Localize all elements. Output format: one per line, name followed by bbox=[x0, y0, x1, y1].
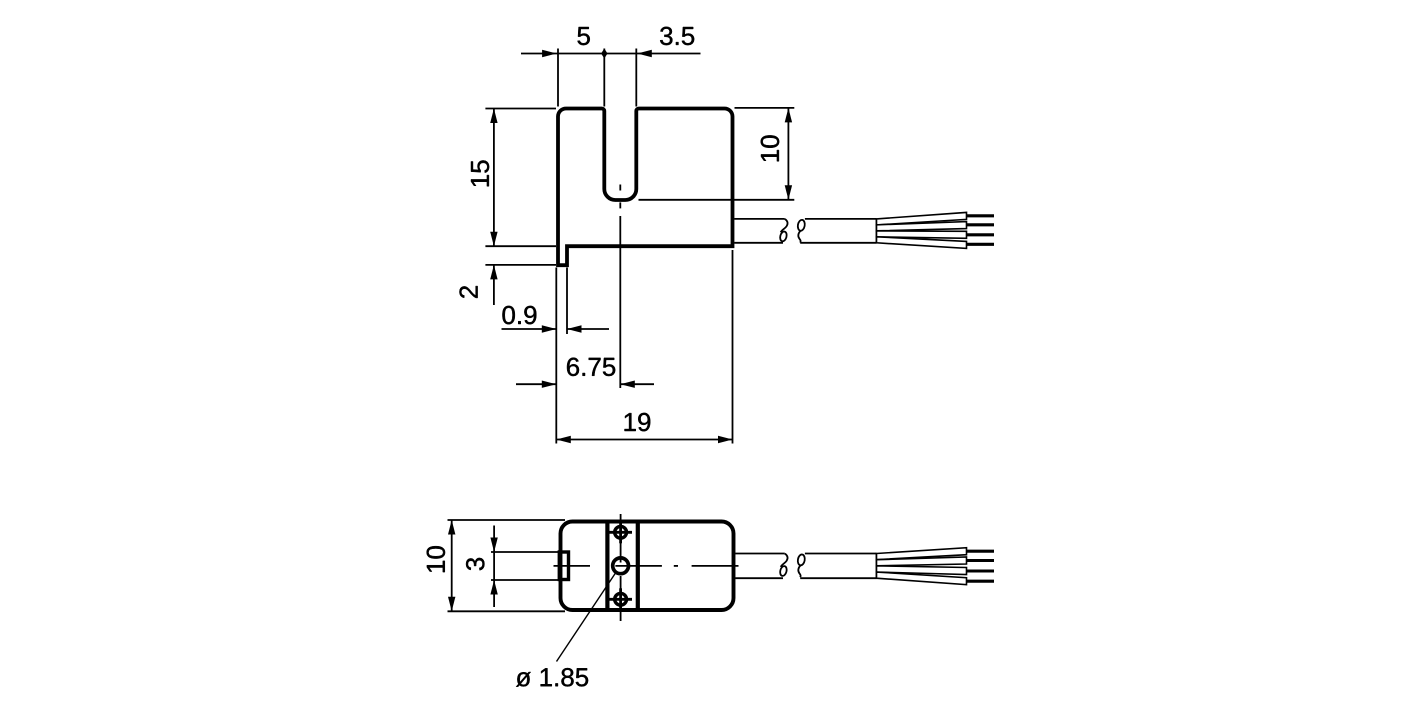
arrow right at body left edge bbox=[542, 50, 557, 57]
diamond marker at slot left wall bbox=[601, 49, 607, 59]
label 5 bbox=[578, 27, 590, 45]
extension line slot left wall (top) bbox=[603, 49, 605, 107]
fan-out wire 3 bbox=[877, 231, 967, 238]
cable break squiggle left bbox=[781, 219, 788, 232]
inner vertical line right bbox=[636, 523, 640, 608]
fan-out wire 1 (bottom view) bbox=[877, 548, 967, 560]
top small hole with cross bbox=[615, 526, 627, 538]
label 10 (rotated) bbox=[761, 135, 779, 161]
bare wire tip 4 bbox=[967, 243, 995, 246]
dimension 10 (bottom view height) bbox=[448, 519, 566, 521]
bare wire tip 1 (bottom view) bbox=[967, 550, 995, 553]
cable (bottom view) left piece bbox=[735, 553, 785, 555]
bare wire tip 1 bbox=[967, 214, 995, 217]
slot centerline dash inside slot bbox=[619, 185, 621, 191]
dimension line 5 / 3.5 (top) bbox=[521, 53, 701, 55]
label 6.75 bbox=[567, 358, 615, 376]
bare wire tip 2 bbox=[967, 223, 995, 226]
label 15 bbox=[471, 160, 489, 186]
label 19 bbox=[625, 413, 651, 431]
inner vertical line left bbox=[605, 523, 609, 608]
hole column centerline (vertical) bbox=[620, 514, 622, 563]
cable break squiggle right (bottom view) bbox=[798, 565, 800, 577]
fan-out wire 3 (bottom view) bbox=[877, 566, 967, 575]
extension line body left edge (top) bbox=[557, 49, 559, 107]
fan-out wire 4 (bottom view) bbox=[877, 572, 967, 585]
fan-out wire 1 (top) bbox=[877, 212, 967, 224]
dimension 6.75 (body left edge to slot center) bbox=[516, 383, 556, 385]
label 10 (rotated, bottom view) bbox=[427, 546, 445, 572]
horizontal centerline (bottom view) bbox=[554, 565, 591, 567]
cable break squiggle left (bottom view) bbox=[781, 554, 788, 567]
bare wire tip 3 (bottom view) bbox=[967, 569, 995, 572]
vertical stub inside ring bbox=[620, 558, 622, 563]
cable (top view) left piece bbox=[734, 218, 785, 220]
dimension 15 (left) bbox=[485, 108, 556, 110]
label 3.5 bbox=[660, 27, 694, 45]
dimension 3 (bottom view tab height) bbox=[491, 551, 559, 553]
arrow left at slot right wall bbox=[637, 50, 652, 57]
cable break squiggle right bbox=[798, 231, 800, 243]
cable (top view) right piece bbox=[805, 218, 877, 220]
center hole ring (ø 1.85) bbox=[613, 558, 629, 574]
label ø 1.85 bbox=[516, 668, 588, 687]
dimension 10 (right, slot depth) bbox=[735, 107, 795, 109]
label 3 (rotated) bbox=[466, 558, 484, 570]
cable (bottom view) right piece bbox=[805, 553, 877, 555]
body outline (side view with U slot and bottom-left tab) bbox=[558, 109, 733, 266]
dimension 19 (bottom width) bbox=[732, 250, 734, 444]
body outline (bottom view rounded rect) bbox=[561, 522, 734, 611]
label 2 bbox=[459, 286, 477, 298]
sensing tab on left edge bbox=[559, 552, 568, 580]
bare wire tip 3 bbox=[967, 233, 995, 236]
label 0.9 bbox=[502, 306, 536, 324]
extension line slot right wall (top) bbox=[635, 49, 637, 107]
leader line for ø 1.85 bbox=[557, 572, 617, 662]
bare wire tip 4 (bottom view) bbox=[967, 580, 995, 583]
bottom small hole with cross bbox=[615, 593, 627, 605]
bare wire tip 2 (bottom view) bbox=[967, 559, 995, 562]
fan-out wire 2 (bottom view) bbox=[877, 557, 967, 566]
slot centerline below slot bottom bbox=[619, 202, 621, 208]
dimension 2 (left, tab depth) bbox=[485, 264, 556, 266]
fan-out wire 2 bbox=[877, 222, 967, 231]
dimension 0.9 (tab width) bbox=[555, 268, 557, 444]
fan-out wire 4 bbox=[877, 237, 967, 249]
